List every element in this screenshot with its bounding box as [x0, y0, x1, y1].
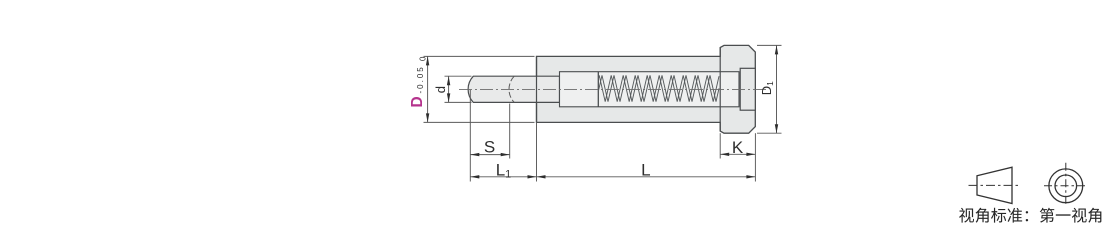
projection symbol: truncated cone side view: [977, 167, 1012, 203]
centerline: [459, 88, 769, 90]
label D with tolerance (rotated, magenta): [409, 56, 428, 108]
dimension L1: [470, 176, 536, 178]
projection symbol: end view circles: [1049, 169, 1083, 203]
svg-text:d: d: [433, 86, 448, 93]
flange left edge full height: [719, 48, 721, 132]
piston rear face: [597, 72, 599, 107]
svg-text:D: D: [409, 96, 426, 107]
svg-text:D1: D1: [759, 81, 775, 95]
svg-text:L: L: [641, 161, 650, 180]
svg-text:-0.05: -0.05: [416, 65, 425, 93]
svg-text:L1: L1: [496, 161, 512, 181]
extension lines: [424, 55, 535, 57]
svg-text:0: 0: [418, 56, 427, 61]
dimension D (vertical, left): [427, 56, 429, 122]
circle crosshair: [1044, 185, 1088, 187]
cone centerline: [969, 184, 1019, 186]
dimension D1 (vertical, right): [776, 45, 778, 133]
dimension d (vertical): [448, 76, 450, 102]
dimension K: [720, 153, 755, 155]
spring bore cavity: [560, 72, 740, 107]
dimension L: [537, 176, 756, 178]
svg-text:K: K: [732, 138, 744, 157]
svg-text:S: S: [484, 138, 495, 157]
end plug: [740, 68, 755, 110]
phantom arc: pin tip pressed position: [509, 76, 514, 102]
plunger body with flange: [537, 45, 756, 133]
body left edge across pin: [536, 56, 538, 122]
dimension S (stroke): [470, 154, 509, 156]
caption: 视角标准：第一视角 (first-angle projection): [959, 208, 974, 223]
coil spring: [598, 75, 719, 101]
plunger pin (rounded nose): [468, 76, 559, 102]
